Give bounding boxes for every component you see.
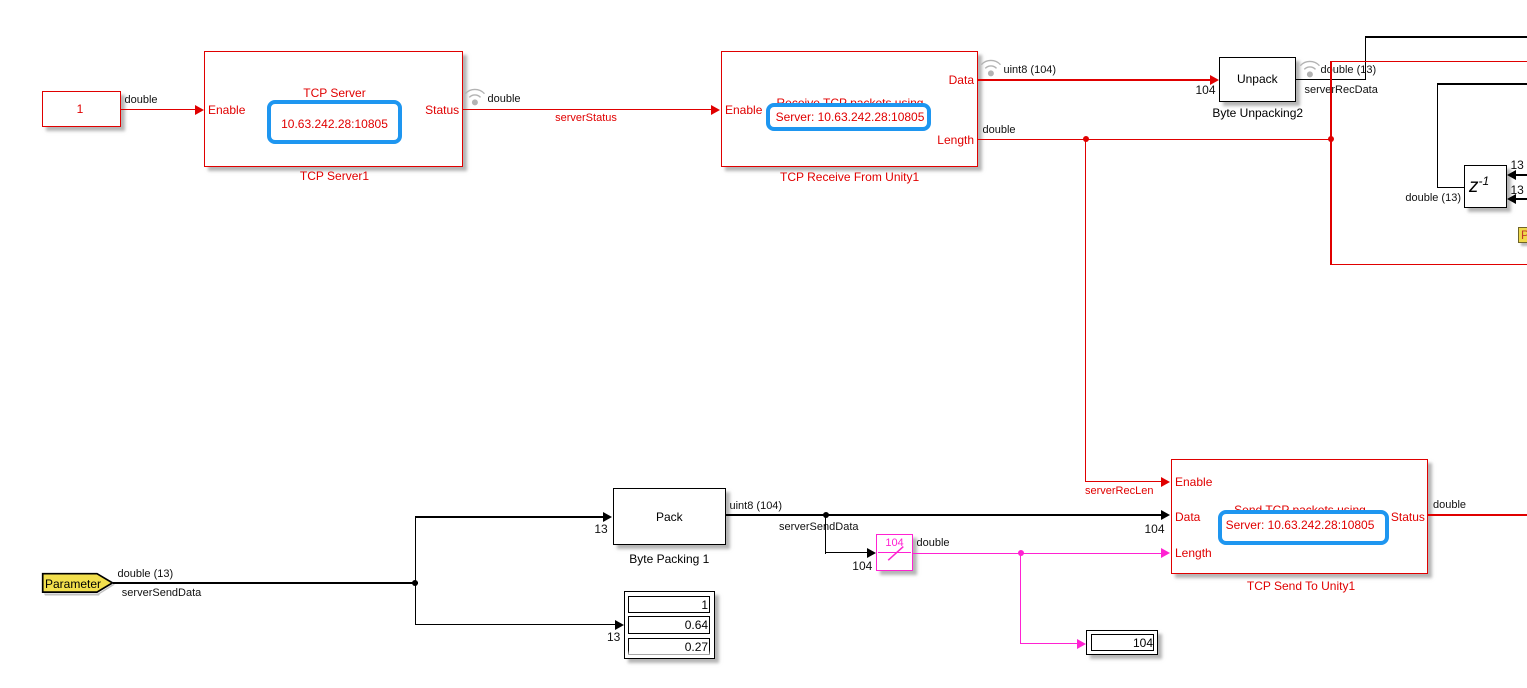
text Send TCP packets using bbox=[1234, 503, 1366, 517]
wireless icon 3 bbox=[1300, 57, 1320, 79]
junction dot bbox=[823, 512, 829, 518]
input stub 2 with left arrow bbox=[1514, 198, 1527, 199]
blue highlight box TCP Server1 bbox=[267, 100, 403, 145]
label double bbox=[983, 124, 1016, 137]
label double bbox=[917, 537, 950, 550]
black wire loop to z-1 bbox=[1437, 83, 1438, 188]
port label Data bbox=[949, 73, 974, 87]
junction dot magenta bbox=[1018, 550, 1024, 556]
wire name serverSendData bbox=[122, 587, 202, 600]
label double bbox=[488, 93, 521, 106]
label double (13) bbox=[118, 568, 174, 581]
junction at 1085 bbox=[1083, 136, 1089, 142]
goto tag P (clipped) bbox=[1518, 227, 1527, 243]
display block 3 rows bbox=[624, 591, 715, 659]
wire name serverRecData bbox=[1305, 84, 1378, 97]
port arrow into Enable of TCP Receive bbox=[711, 105, 720, 115]
junction dot bbox=[412, 580, 418, 586]
wireless icon 1 bbox=[465, 85, 485, 107]
port arrow into Unpack bbox=[1210, 75, 1219, 85]
port arrow into Width block bbox=[867, 548, 876, 558]
branch down to display 104 bbox=[1020, 553, 1021, 644]
branch up to Pack bbox=[415, 516, 416, 583]
block name TCP Send To Unity1 bbox=[1247, 579, 1355, 593]
port label Length bbox=[937, 133, 974, 147]
port arrow into Enable of TCP Server1 bbox=[195, 105, 204, 115]
red loop wire top-right bbox=[1330, 61, 1331, 265]
port width label 13 bbox=[607, 631, 620, 644]
label double bbox=[1433, 499, 1466, 512]
label uint8 (104) bbox=[730, 500, 783, 513]
port label Data bbox=[1175, 510, 1200, 524]
wireless icon 2 bbox=[981, 56, 1001, 78]
port width label 104 bbox=[852, 560, 872, 573]
block name TCP Server1 bbox=[300, 169, 369, 183]
label double (13) bbox=[1321, 64, 1377, 77]
port width label 13 bbox=[594, 523, 607, 536]
port label Enable bbox=[1175, 475, 1212, 489]
port arrow into Enable of TCP Send bbox=[1161, 477, 1170, 487]
port arrow into Length of TCP Send bbox=[1161, 548, 1170, 558]
block TCP Receive From Unity1 bbox=[721, 51, 978, 167]
port arrow into display 104 bbox=[1077, 639, 1086, 649]
text Receive TCP packets using bbox=[777, 96, 924, 110]
wire TCP Send Status output bbox=[1428, 514, 1527, 515]
branch down to display 3row bbox=[415, 582, 416, 624]
block TCP Server1 bbox=[204, 51, 463, 167]
wire name serverRecLen bbox=[1085, 485, 1153, 498]
port arrow into display bbox=[615, 620, 624, 630]
port width label 13 bbox=[1511, 159, 1524, 172]
constant block Const1 value 1 bbox=[42, 91, 121, 127]
block Byte Packing 1 (Pack) bbox=[613, 488, 727, 545]
tag Parameter bbox=[41, 572, 119, 597]
port label Status bbox=[425, 103, 459, 117]
port width label 13 bbox=[1511, 184, 1524, 197]
block Byte Unpacking2 (Unpack) bbox=[1219, 57, 1296, 102]
label double (13) bbox=[1405, 192, 1461, 205]
port label Length bbox=[1175, 546, 1212, 560]
block name Byte Packing 1 bbox=[629, 552, 709, 566]
port label Enable bbox=[208, 103, 245, 117]
wire Length output bbox=[978, 139, 1332, 140]
wire Parameter to junction bbox=[113, 582, 418, 583]
wire Data to Unpack bbox=[978, 79, 1210, 80]
blue highlight box Send bbox=[1218, 510, 1389, 545]
port arrow into Pack bbox=[603, 512, 612, 522]
input stub 1 with left arrow bbox=[1514, 174, 1527, 175]
port width label 104 bbox=[1195, 84, 1215, 97]
wire serverRecLen down to TCP Send Enable bbox=[1085, 139, 1086, 483]
junction at red loop left edge bbox=[1328, 136, 1334, 142]
branch down to Width block bbox=[825, 514, 826, 553]
wire Width output to TCP Send Length bbox=[913, 553, 1162, 554]
label double bbox=[125, 94, 158, 107]
port label Enable bbox=[725, 103, 762, 117]
port label Status bbox=[1391, 510, 1425, 524]
wire Unpack output right-up-right bbox=[1296, 79, 1367, 80]
blue highlight box Receive bbox=[766, 103, 932, 131]
block name TCP Receive From Unity1 bbox=[780, 170, 919, 184]
block Unit Delay z-1 bbox=[1464, 165, 1507, 208]
block Width (magenta) bbox=[876, 534, 912, 571]
wire Pack output to TCP Send Data bbox=[726, 514, 1162, 515]
wire constant to TCP Server1 Enable bbox=[121, 109, 195, 110]
label uint8 (104) bbox=[1004, 64, 1057, 77]
wire name serverSendData bbox=[779, 521, 859, 534]
text TCP Server bbox=[303, 86, 365, 100]
display block 104 bbox=[1086, 630, 1158, 655]
port arrow into Data of TCP Send bbox=[1161, 510, 1170, 520]
wire TCP Server1 Status to TCP Receive Enable bbox=[463, 109, 712, 110]
port width label 104 bbox=[1144, 523, 1164, 536]
block name Byte Unpacking2 bbox=[1212, 106, 1303, 120]
wire name serverStatus bbox=[555, 112, 617, 125]
block TCP Send To Unity1 bbox=[1171, 459, 1428, 575]
